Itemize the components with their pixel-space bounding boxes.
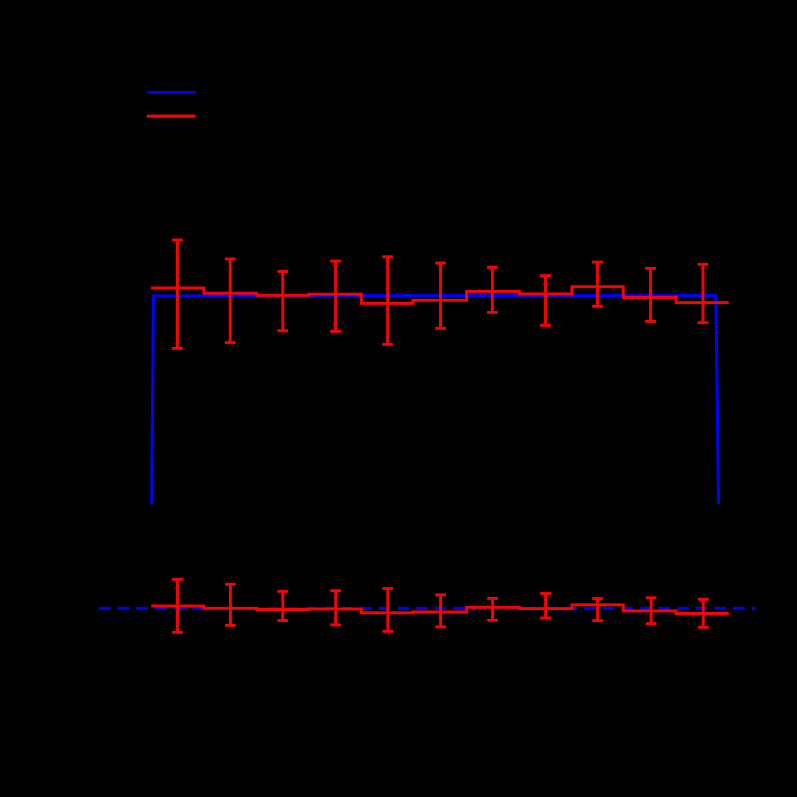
blue density curve (top panel) xyxy=(152,296,719,505)
error bar B7 xyxy=(487,598,498,620)
error bar B11 xyxy=(698,599,709,627)
legend red line xyxy=(147,115,196,118)
error bar T11 xyxy=(698,264,709,322)
error bar B5 xyxy=(382,589,393,632)
error bar T9 xyxy=(592,262,603,306)
error bar T4 xyxy=(330,261,341,331)
legend blue line xyxy=(147,91,196,94)
error bar B9 xyxy=(592,599,603,621)
error bar B6 xyxy=(435,595,446,627)
error bar T5 xyxy=(382,257,393,345)
error bar T7 xyxy=(487,267,498,312)
red ratio step (bottom panel) xyxy=(151,605,729,614)
error bar T2 xyxy=(225,259,236,343)
error bar T10 xyxy=(645,268,656,321)
error bar T3 xyxy=(277,272,288,331)
error bar B1 xyxy=(172,579,183,632)
error bar B2 xyxy=(225,584,236,625)
error bar B8 xyxy=(540,594,551,619)
error bar T6 xyxy=(435,263,446,328)
error bar B3 xyxy=(277,591,288,620)
red histogram step (top panel) xyxy=(151,287,729,304)
blue dashed reference line (bottom panel) xyxy=(99,607,755,610)
error bar T1 xyxy=(172,240,183,348)
error bar T8 xyxy=(540,276,551,326)
error bar B10 xyxy=(646,598,657,624)
error bar B4 xyxy=(330,591,341,625)
